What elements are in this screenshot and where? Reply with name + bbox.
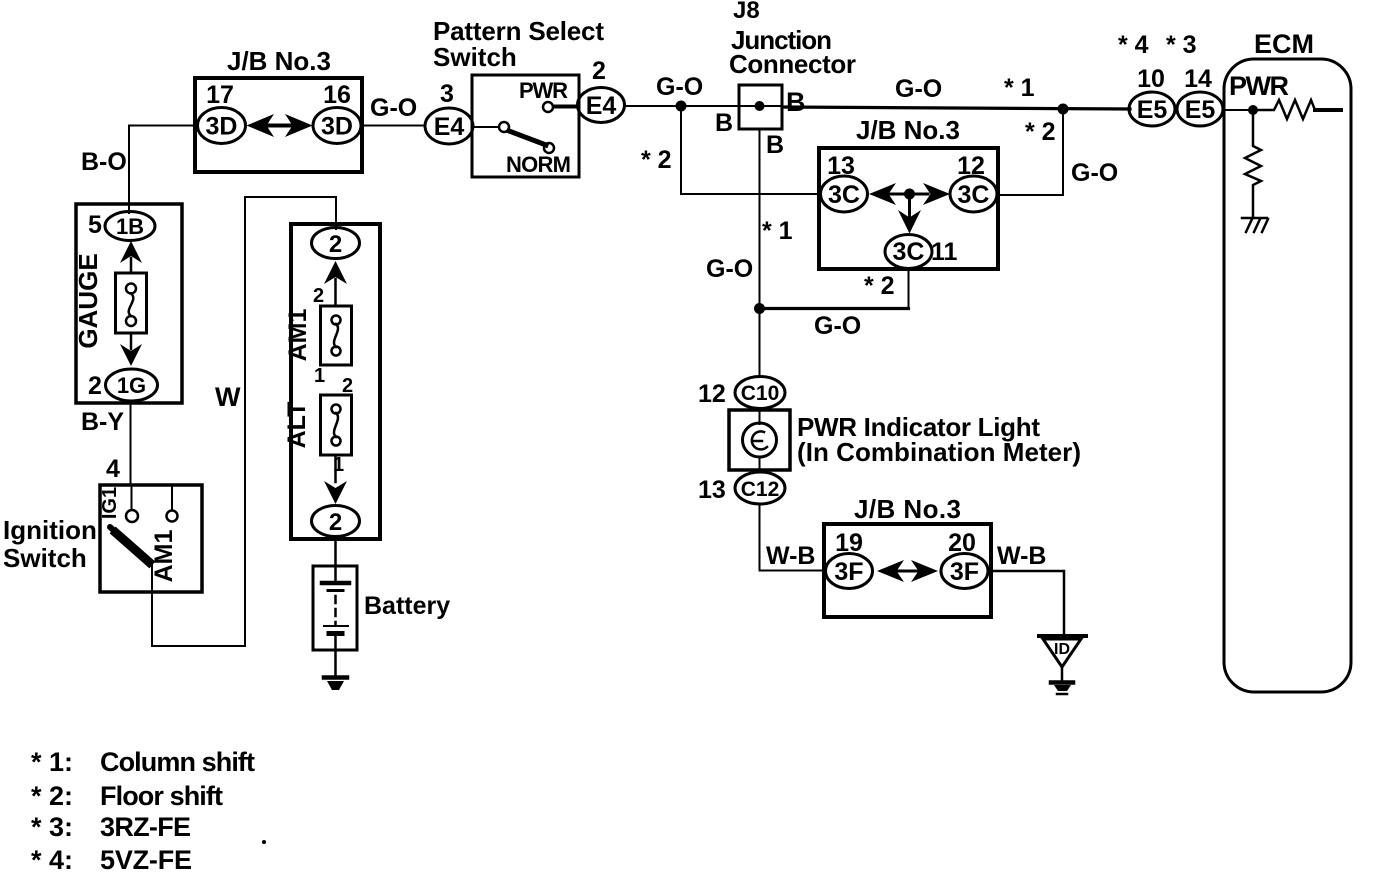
contact NORM [544, 143, 554, 153]
battery [313, 566, 357, 650]
svg-text:3F: 3F [950, 558, 979, 586]
svg-text:B-Y: B-Y [81, 408, 124, 436]
wire W-B from C12 to 3F [760, 504, 827, 571]
connector E4 (pin 2) [578, 88, 625, 123]
node inside 3C block [904, 189, 915, 200]
svg-text:3C: 3C [958, 181, 990, 209]
internal bus arrows between 3D connectors [247, 114, 275, 137]
svg-text:* 2: * 2 [1025, 118, 1056, 146]
svg-text:E5: E5 [1185, 96, 1216, 124]
svg-text:ID: ID [1054, 641, 1070, 658]
GAUGE fuse block [76, 204, 182, 403]
svg-text:* 2: * 2 [641, 146, 672, 174]
svg-text:J/B No.3: J/B No.3 [854, 494, 961, 524]
wire B-Y from 1G to ignition switch [130, 401, 132, 485]
svg-text:G-O: G-O [656, 73, 703, 101]
svg-text:AM1: AM1 [284, 309, 312, 362]
wire to battery [334, 537, 337, 583]
connector 1B (pin 5) [105, 212, 155, 241]
svg-text:PWR: PWR [1229, 71, 1289, 101]
svg-text:E4: E4 [586, 92, 617, 120]
svg-text:AM1: AM1 [150, 530, 178, 583]
ground (battery) [324, 675, 347, 680]
svg-text:Floor shift: Floor shift [100, 781, 223, 811]
connector 2 (top) [312, 228, 360, 259]
internal bus arrows between 3C connectors [869, 183, 896, 205]
connector C12 (pin 13) [735, 472, 785, 504]
fusible link AM1 [321, 306, 352, 365]
svg-text:2: 2 [329, 231, 342, 258]
wire into ECM [1224, 109, 1250, 111]
svg-text:* 4: * 4 [1118, 31, 1149, 59]
contact common (pin 3) [474, 126, 498, 128]
wire W from ignition switch to AM1 fusible link [152, 197, 336, 646]
svg-text:* 1:: * 1: [31, 747, 73, 777]
internal arrow up to 1B [120, 241, 142, 263]
node inside junction connector [755, 101, 765, 111]
contact PWR [543, 102, 553, 112]
svg-text:* 3:: * 3: [31, 812, 73, 842]
svg-text:* 3: * 3 [1166, 31, 1197, 59]
svg-text:Ignition: Ignition [3, 515, 97, 545]
svg-text:3D: 3D [206, 113, 238, 141]
wire battery to ground [334, 636, 337, 676]
svg-text:10: 10 [1137, 65, 1165, 93]
node (splice) with 3C pin 11 branch [754, 303, 765, 314]
svg-text:Column shift: Column shift [100, 747, 255, 777]
connector 3F (pin 19) [826, 554, 873, 589]
node (splice) on G-O wire [676, 101, 687, 112]
resistor (horizontal, pull-up) [1253, 100, 1315, 119]
svg-text:B: B [786, 87, 806, 117]
connector 3C (pin 11) [885, 235, 932, 269]
svg-text:E4: E4 [434, 113, 465, 141]
connector 2 (bottom) [312, 506, 360, 537]
svg-text:W-B: W-B [766, 542, 815, 570]
connector 3C (pin 12) [950, 176, 997, 212]
wire G-O from splice to 3C pin 11 branch [759, 307, 909, 310]
terminal AM1 [171, 487, 173, 510]
switch lever [509, 131, 546, 145]
wire B-O from gauge fuse 1B to J/B No.3 [129, 126, 196, 214]
svg-text:ECM: ECM [1254, 29, 1314, 59]
svg-text:3D: 3D [321, 113, 353, 141]
svg-text:J8: J8 [733, 0, 760, 24]
svg-text:B: B [715, 109, 733, 137]
wire down from 3C pin 11 [908, 269, 910, 308]
svg-text:Battery: Battery [364, 592, 450, 620]
svg-text:PWR: PWR [519, 78, 568, 103]
svg-text:4: 4 [106, 455, 120, 483]
svg-text:16: 16 [323, 81, 351, 109]
svg-text:5: 5 [88, 211, 102, 239]
wire PWR contact to pin 2 [554, 105, 578, 109]
fusible link ALT [321, 395, 352, 455]
svg-text:* 1: * 1 [1004, 74, 1035, 102]
svg-text:* 4:: * 4: [31, 845, 73, 874]
svg-text:3F: 3F [834, 558, 863, 586]
wire B through junction connector [739, 105, 782, 107]
svg-text:12: 12 [698, 380, 726, 408]
fusible link block (AM1 / ALT) [291, 224, 380, 539]
svg-text:W-B: W-B [997, 542, 1046, 570]
connector 3C (pin 13) [821, 176, 868, 212]
svg-text:3RZ-FE: 3RZ-FE [100, 812, 191, 842]
svg-text:2: 2 [329, 509, 342, 536]
svg-text:2: 2 [313, 285, 324, 307]
svg-text:Connector: Connector [729, 49, 856, 79]
wire W-B from 3F pin 20 to ground [988, 571, 1064, 634]
svg-text:1: 1 [314, 365, 325, 387]
svg-text:C12: C12 [741, 478, 780, 501]
svg-text:NORM: NORM [506, 152, 571, 177]
svg-text:1G: 1G [117, 373, 146, 398]
resistor (vertical, to ground) [1245, 110, 1261, 216]
connector E5 (pin 10) [1129, 92, 1175, 126]
svg-text:Switch: Switch [433, 42, 517, 72]
wire branch down from splice to 3C pin 12 [997, 109, 1063, 195]
svg-text:11: 11 [931, 238, 958, 266]
svg-text:17: 17 [206, 81, 234, 109]
connector 3F (pin 20) [941, 554, 988, 589]
svg-text:* 2: * 2 [864, 272, 895, 300]
ground ID [1039, 634, 1086, 638]
internal arrow down to 1G [130, 333, 133, 349]
svg-text:(In Combination Meter): (In Combination Meter) [797, 437, 1081, 467]
svg-text:ALT: ALT [283, 402, 311, 449]
fuse GAUGE [116, 273, 147, 333]
svg-text:13: 13 [698, 476, 726, 504]
svg-text:B-O: B-O [81, 148, 127, 176]
svg-text:1B: 1B [116, 214, 144, 239]
svg-text:J/B No.3: J/B No.3 [856, 115, 960, 145]
svg-text:14: 14 [1184, 65, 1212, 93]
connector E4 (pin 3) [425, 108, 473, 144]
svg-text:Switch: Switch [3, 543, 87, 573]
wire G-O from 3D to E4 [362, 125, 425, 127]
svg-text:GAUGE: GAUGE [73, 253, 103, 348]
node (splice) to 3C branch [1058, 104, 1069, 115]
svg-text:* 2:: * 2: [31, 781, 73, 811]
svg-text:2: 2 [592, 57, 606, 85]
svg-text:G-O: G-O [370, 94, 417, 122]
connector C10 (pin 12) [735, 377, 785, 409]
wire G-O from junction connector to E5 [782, 107, 1130, 109]
svg-text:E5: E5 [1137, 96, 1168, 124]
svg-text:3: 3 [440, 80, 454, 108]
svg-text:G-O: G-O [1071, 159, 1118, 187]
internal arrow down to connector 2 [334, 455, 337, 482]
wire branch down from splice to floor-shift 3C row [681, 106, 821, 194]
connector 3D (pin 16) [313, 108, 361, 144]
svg-text:G-O: G-O [814, 312, 861, 340]
wire B down from junction connector to indicator light [759, 129, 761, 377]
svg-text:3C: 3C [828, 181, 860, 209]
svg-text:* 1: * 1 [762, 217, 793, 245]
svg-text:IG1: IG1 [99, 487, 121, 519]
connector 3D (pin 17) [198, 108, 246, 144]
internal arrow down to 3C pin 11 [908, 194, 911, 216]
svg-text:J/B No.3: J/B No.3 [227, 46, 331, 76]
ground (inside ECM) [1242, 217, 1267, 220]
connector E5 (pin 14) [1177, 92, 1223, 126]
svg-text:G-O: G-O [895, 75, 942, 103]
wire G-O from E4 to junction connector [625, 105, 739, 107]
PWR indicator light (bulb) [729, 410, 790, 470]
svg-text:5VZ-FE: 5VZ-FE [100, 845, 192, 874]
internal arrow up to connector 2 [324, 261, 347, 284]
svg-text:2: 2 [88, 372, 102, 400]
internal bus arrows between 3F connectors [877, 560, 904, 582]
svg-text:B: B [766, 131, 784, 159]
connector 1G (pin 2) [106, 369, 158, 401]
svg-text:G-O: G-O [706, 255, 753, 283]
svg-text:W: W [215, 382, 241, 412]
node inside ECM [1248, 105, 1258, 115]
svg-text:3C: 3C [893, 238, 925, 266]
switch lever [116, 533, 149, 562]
svg-text:C10: C10 [741, 382, 780, 405]
